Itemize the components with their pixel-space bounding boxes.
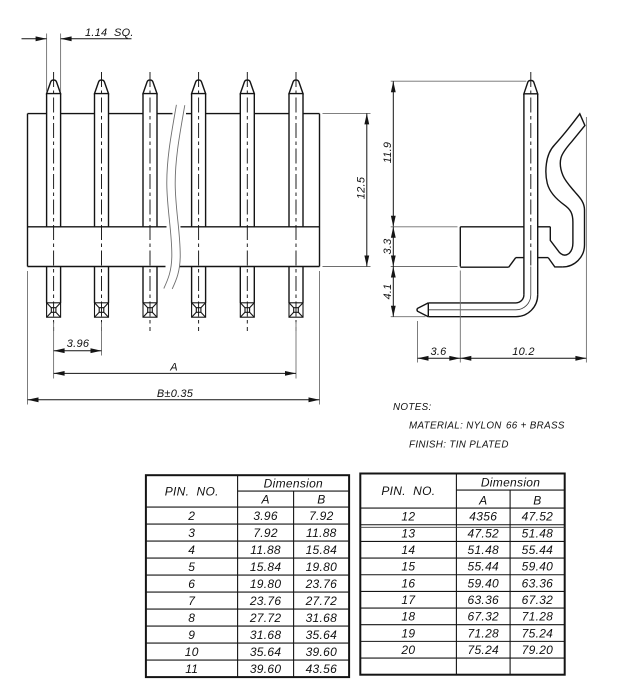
svg-text:20: 20 — [400, 643, 415, 657]
housing right edge — [319, 114, 321, 267]
right table row pin 15 — [360, 560, 564, 575]
svg-text:11.88: 11.88 — [250, 543, 281, 557]
svg-text:3.96: 3.96 — [253, 509, 278, 523]
svg-text:PIN. NO.: PIN. NO. — [381, 484, 435, 498]
svg-text:39.60: 39.60 — [250, 662, 282, 676]
right table row pin 19 — [360, 626, 564, 641]
break lines (front view) — [164, 105, 177, 289]
svg-text:16: 16 — [401, 576, 415, 590]
svg-text:B±0.35: B±0.35 — [157, 388, 194, 400]
svg-text:19.80: 19.80 — [306, 560, 338, 574]
right table outer border — [360, 474, 564, 675]
svg-text:14: 14 — [401, 543, 415, 557]
dimension 10.2 — [460, 117, 586, 363]
dimension 3.96 — [54, 322, 102, 379]
svg-text:17: 17 — [401, 593, 416, 607]
svg-text:4: 4 — [188, 543, 195, 557]
svg-text:47.52: 47.52 — [467, 526, 499, 540]
svg-text:10: 10 — [185, 645, 199, 659]
svg-text:11: 11 — [185, 662, 198, 676]
dimension A — [54, 322, 296, 379]
housing band bottom edge — [28, 266, 320, 268]
svg-text:7: 7 — [188, 594, 196, 608]
svg-text:MATERIAL: NYLON 66 + BRASS: MATERIAL: NYLON 66 + BRASS — [409, 421, 565, 432]
svg-text:6: 6 — [188, 577, 195, 591]
svg-text:19.80: 19.80 — [250, 577, 282, 591]
right table row pin 14 — [360, 543, 564, 558]
right table row pin 18 — [360, 610, 564, 625]
dimension 3.6 — [418, 271, 461, 363]
right table row pin 17 — [360, 593, 564, 608]
side view: right-angle pin — [417, 72, 538, 317]
svg-text:FINISH: TIN PLATED: FINISH: TIN PLATED — [409, 440, 509, 451]
left table row pin 2 — [146, 509, 349, 524]
svg-text:Dimension: Dimension — [481, 476, 540, 490]
left table row pin 6 — [146, 577, 349, 592]
side view: housing block with retention strip — [460, 114, 585, 267]
svg-text:18: 18 — [401, 610, 415, 624]
svg-text:35.64: 35.64 — [306, 628, 338, 642]
svg-text:67.32: 67.32 — [522, 593, 554, 607]
svg-text:B: B — [533, 493, 541, 507]
svg-text:12.5: 12.5 — [355, 176, 367, 199]
svg-text:11.88: 11.88 — [306, 526, 337, 540]
right table column lines — [455, 474, 457, 675]
pin 4 (front view) — [192, 72, 206, 331]
left table row pin 5 — [146, 560, 349, 575]
svg-text:55.44: 55.44 — [522, 543, 554, 557]
housing band top edge — [28, 226, 320, 228]
svg-text:A: A — [260, 492, 269, 506]
svg-text:3.6: 3.6 — [430, 346, 447, 358]
pin 5 (front view) — [240, 72, 254, 331]
housing left edge — [27, 114, 29, 267]
svg-text:12: 12 — [401, 510, 415, 524]
right table header lines — [456, 489, 564, 491]
svg-text:63.36: 63.36 — [522, 576, 554, 590]
svg-text:10.2: 10.2 — [512, 346, 534, 358]
svg-text:59.40: 59.40 — [522, 560, 554, 574]
left table row pin 9 — [146, 628, 349, 643]
svg-text:67.32: 67.32 — [467, 610, 499, 624]
svg-text:23.76: 23.76 — [249, 594, 282, 608]
svg-text:39.60: 39.60 — [306, 645, 338, 659]
left table column lines — [237, 475, 239, 677]
svg-text:19: 19 — [401, 626, 415, 640]
right table row pin 13 — [360, 526, 564, 541]
left table row pin 3 — [146, 526, 349, 541]
svg-text:71.28: 71.28 — [467, 626, 499, 640]
svg-text:23.76: 23.76 — [305, 577, 338, 591]
svg-text:B: B — [317, 492, 325, 506]
svg-text:27.72: 27.72 — [305, 594, 338, 608]
svg-text:9: 9 — [188, 628, 195, 642]
svg-text:75.24: 75.24 — [467, 643, 499, 657]
right table row pin — [0, 0, 1, 1]
svg-text:35.64: 35.64 — [250, 645, 282, 659]
svg-text:11.9: 11.9 — [382, 142, 394, 164]
svg-text:79.20: 79.20 — [522, 643, 554, 657]
svg-text:59.40: 59.40 — [467, 576, 499, 590]
pin 1 (front view) — [47, 72, 61, 331]
left table row pin 11 — [185, 662, 337, 676]
svg-text:2: 2 — [187, 509, 195, 523]
svg-text:3.3: 3.3 — [382, 238, 394, 255]
svg-text:NOTES:: NOTES: — [393, 402, 432, 413]
svg-text:7.92: 7.92 — [253, 526, 278, 540]
svg-text:A: A — [169, 362, 178, 374]
svg-text:43.56: 43.56 — [306, 662, 338, 676]
svg-text:47.52: 47.52 — [522, 510, 554, 524]
housing front face top edge — [28, 113, 320, 115]
svg-text:31.68: 31.68 — [250, 628, 282, 642]
svg-text:15.84: 15.84 — [306, 543, 338, 557]
pin 3 (front view) — [143, 72, 157, 331]
left table row pin 10 — [146, 645, 349, 660]
svg-text:5: 5 — [188, 560, 195, 574]
dimension 3.3 — [382, 227, 457, 267]
svg-text:A: A — [478, 493, 487, 507]
left table row pin 8 — [146, 611, 349, 626]
pin 2 (front view) — [95, 72, 109, 331]
notes text — [393, 402, 565, 451]
dimension B±0.35 — [28, 271, 320, 405]
left table outer border — [146, 475, 349, 677]
svg-text:63.36: 63.36 — [467, 593, 499, 607]
svg-text:71.28: 71.28 — [522, 610, 554, 624]
pin 6 (front view) — [289, 72, 303, 331]
dimension 4.1 — [382, 267, 425, 317]
svg-text:7.92: 7.92 — [309, 509, 334, 523]
right table row pin 20 — [360, 643, 564, 658]
svg-text:4356: 4356 — [469, 510, 497, 524]
dimension 1.14 SQ. — [22, 27, 134, 92]
svg-text:1.14 SQ.: 1.14 SQ. — [85, 27, 134, 39]
svg-text:13: 13 — [401, 526, 415, 540]
right table extra ledger line — [360, 526, 564, 528]
svg-text:15.84: 15.84 — [250, 560, 282, 574]
svg-text:PIN. NO.: PIN. NO. — [165, 484, 219, 498]
left table header lines — [238, 490, 350, 492]
svg-text:27.72: 27.72 — [249, 611, 282, 625]
side pin tip (left point) — [417, 303, 428, 317]
svg-text:3.96: 3.96 — [67, 338, 90, 350]
dimension 11.9 — [382, 81, 526, 227]
svg-text:51.48: 51.48 — [467, 543, 499, 557]
left table row pin 4 — [146, 543, 349, 558]
svg-text:75.24: 75.24 — [522, 626, 554, 640]
right table row pin 12 — [360, 510, 564, 525]
svg-text:4.1: 4.1 — [382, 283, 394, 299]
svg-text:51.48: 51.48 — [522, 526, 554, 540]
svg-text:15: 15 — [401, 560, 415, 574]
svg-text:Dimension: Dimension — [264, 477, 323, 491]
svg-text:3: 3 — [188, 526, 195, 540]
right table row pin 16 — [360, 576, 564, 591]
svg-text:8: 8 — [188, 611, 195, 625]
svg-text:55.44: 55.44 — [467, 560, 499, 574]
dimension 12.5 — [323, 113, 371, 266]
svg-text:31.68: 31.68 — [306, 611, 338, 625]
left table row pin 7 — [146, 594, 349, 609]
